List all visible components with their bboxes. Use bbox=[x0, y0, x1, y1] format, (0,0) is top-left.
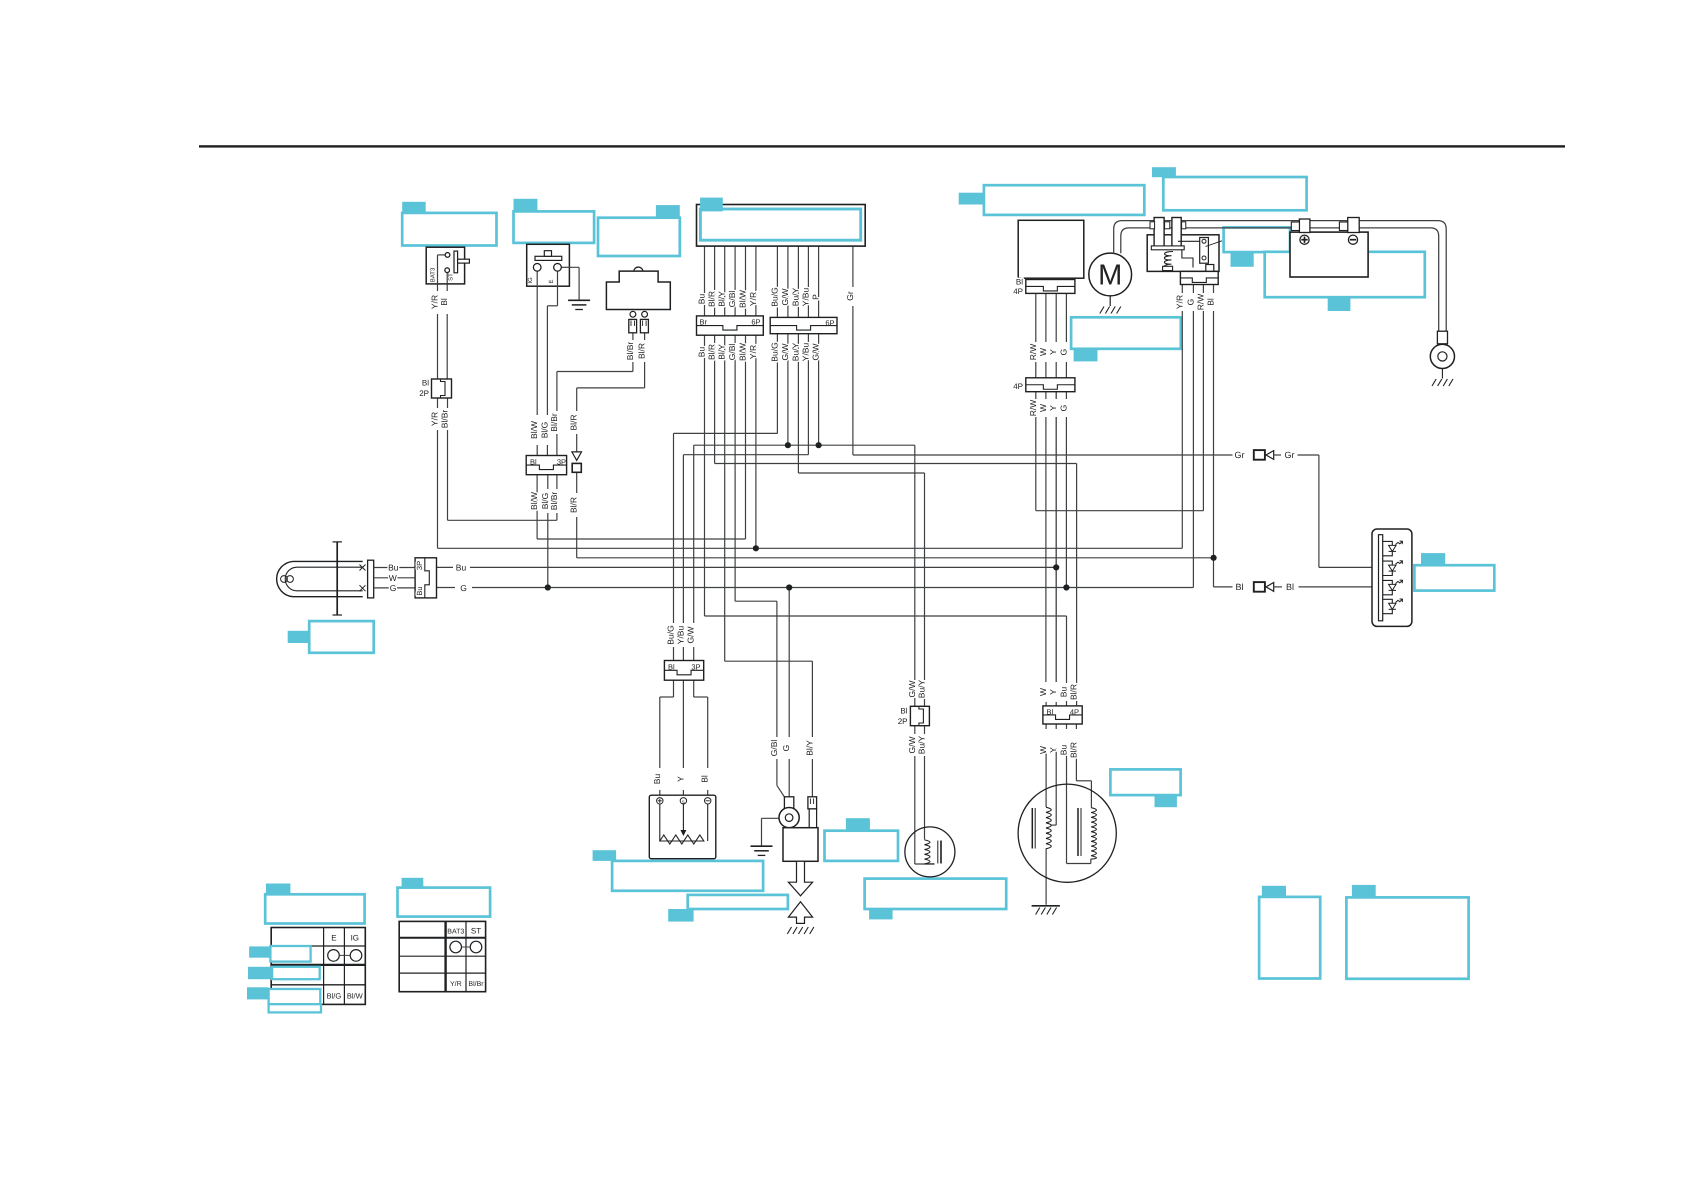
wire Y: regulator to alternator bbox=[1055, 293, 1057, 342]
svg-text:6P: 6P bbox=[825, 318, 834, 327]
label box: starter switch bbox=[402, 202, 426, 213]
ground: spark plug eyelet bbox=[762, 817, 779, 819]
exciter coil bbox=[905, 827, 955, 877]
svg-text:4P: 4P bbox=[1013, 382, 1023, 391]
svg-text:Y: Y bbox=[1048, 349, 1058, 355]
wire Bu: CDI to alternator bbox=[704, 335, 706, 616]
svg-text:Y/Bu: Y/Bu bbox=[800, 343, 810, 362]
svg-text:W: W bbox=[1038, 688, 1048, 696]
svg-text:Bl: Bl bbox=[1206, 298, 1216, 306]
fuse terminals bbox=[1154, 218, 1164, 247]
wire G: handlebar switch column bbox=[1192, 285, 1194, 294]
svg-text:Gr: Gr bbox=[845, 291, 855, 301]
svg-text:G: G bbox=[1058, 405, 1068, 412]
svg-text:Bu: Bu bbox=[415, 586, 424, 595]
label box: regulator unit bbox=[959, 193, 984, 205]
svg-text:W: W bbox=[389, 573, 397, 583]
svg-text:Bl: Bl bbox=[1286, 582, 1294, 592]
svg-text:2P: 2P bbox=[898, 717, 908, 726]
svg-text:Y: Y bbox=[675, 776, 685, 782]
label boxes: table 1 bbox=[266, 884, 291, 895]
indicator LED bbox=[1383, 561, 1393, 565]
wire Bu W G: headlight leads bbox=[374, 567, 415, 569]
svg-text:3P: 3P bbox=[557, 458, 566, 467]
wire Bl/Br: ignition coil lead bbox=[632, 333, 634, 340]
label box: indicator lamps bbox=[1421, 553, 1445, 565]
wire: engine stop switch internal bbox=[536, 271, 538, 287]
headlight bulb bbox=[277, 561, 363, 596]
svg-text:W: W bbox=[1038, 404, 1048, 412]
svg-text:Bl/G: Bl/G bbox=[327, 991, 342, 1000]
connector 6P Br: CDI bbox=[697, 316, 764, 335]
svg-text:Bu: Bu bbox=[1059, 745, 1069, 756]
svg-text:Bu: Bu bbox=[388, 563, 399, 573]
junction: Y/R bus bbox=[753, 545, 759, 551]
wire R/W bus: regulator to handlebar switch bbox=[1036, 510, 1204, 512]
connector 2P Bl: exciter bbox=[910, 706, 929, 725]
svg-text:Bl/R: Bl/R bbox=[707, 291, 717, 307]
wire W Y Bu Bl/R: 4P to alternator coils bbox=[1045, 724, 1047, 729]
svg-text:Bu: Bu bbox=[697, 347, 707, 358]
rectifier bbox=[649, 795, 716, 859]
junction: G bus / plug bbox=[786, 584, 792, 590]
rectifier arrow bbox=[682, 804, 684, 831]
wire Bl/W: engine stop switch IG bbox=[536, 271, 538, 415]
connector 4P: handlebar harness bbox=[1180, 271, 1218, 284]
svg-text:Bl/W: Bl/W bbox=[738, 343, 748, 361]
wire R/W: regulator column bbox=[1035, 293, 1037, 342]
continuity table: starter switch bbox=[399, 921, 485, 991]
svg-text:G/W: G/W bbox=[811, 344, 821, 361]
svg-text:Bl/R: Bl/R bbox=[707, 344, 717, 360]
svg-text:4P: 4P bbox=[1070, 708, 1079, 717]
svg-text:G: G bbox=[460, 583, 467, 593]
wire G/W Bu/Y: 2P to exciter coil bbox=[914, 726, 916, 734]
svg-text:Bu/G: Bu/G bbox=[769, 342, 779, 361]
connector 4P Bl: regulator bbox=[1026, 280, 1075, 294]
starter switch key bbox=[454, 251, 458, 273]
svg-text:6P: 6P bbox=[751, 318, 760, 327]
svg-text:W: W bbox=[1038, 348, 1048, 356]
svg-text:4P: 4P bbox=[1013, 287, 1023, 296]
wire G/Bl: CDI to spark plug eyelet bbox=[734, 335, 736, 601]
wire Bu bus: headlight to alternator Y bbox=[437, 566, 454, 568]
svg-text:Bl: Bl bbox=[422, 378, 429, 387]
svg-text:G/Bl: G/Bl bbox=[727, 344, 737, 361]
junction: G/W bus 1 bbox=[785, 442, 791, 448]
svg-text:Y/R: Y/R bbox=[430, 295, 440, 309]
svg-text:Bl/Br: Bl/Br bbox=[549, 413, 559, 432]
svg-text:Bu/Y: Bu/Y bbox=[790, 287, 800, 306]
rectifier resistor bbox=[659, 804, 661, 841]
label box: ignition coil bbox=[656, 205, 680, 218]
headlight terminals bbox=[360, 565, 366, 592]
svg-text:Bu/G: Bu/G bbox=[666, 625, 676, 644]
diode bullet connector bbox=[572, 452, 582, 461]
junction: G bus / Bl-G bbox=[545, 584, 551, 590]
svg-text:Y/R: Y/R bbox=[748, 292, 758, 306]
spark plug arrow down bbox=[788, 861, 812, 896]
svg-text:Y/R: Y/R bbox=[430, 412, 440, 426]
svg-text:Bl/Br: Bl/Br bbox=[468, 980, 484, 988]
wire Gr: CDI to indicator lamp bbox=[852, 246, 854, 287]
svg-text:2P: 2P bbox=[419, 389, 429, 398]
svg-text:Bu: Bu bbox=[1059, 687, 1069, 698]
label box: rectifier bbox=[593, 850, 617, 861]
wire G: G bus to spark plug eyelet bbox=[788, 588, 790, 738]
junction: G bus / regulator G bbox=[1063, 584, 1069, 590]
battery negative terminal bbox=[1348, 235, 1357, 244]
ground: spark gap bbox=[787, 927, 814, 934]
svg-text:Bl: Bl bbox=[439, 298, 449, 306]
svg-text:Bl/G: Bl/G bbox=[539, 422, 549, 439]
junction: Bl / Bl-R bbox=[1211, 555, 1217, 561]
headlight terminal plate bbox=[368, 560, 374, 598]
wire: engine stop switch to ground bbox=[561, 266, 579, 268]
relay coil bbox=[1164, 252, 1173, 269]
svg-text:IG: IG bbox=[527, 277, 534, 284]
ignition coil bbox=[634, 267, 643, 271]
spark plug cap bbox=[808, 797, 817, 809]
ground eyelet bbox=[1437, 331, 1447, 344]
svg-text:Y/R: Y/R bbox=[1174, 295, 1184, 309]
ground: battery earth bbox=[1441, 369, 1443, 379]
page header rule bbox=[199, 145, 1565, 147]
svg-text:G/W: G/W bbox=[907, 737, 917, 754]
wire Bl/Y: CDI to spark plug cap bbox=[724, 335, 726, 661]
svg-text:G: G bbox=[1058, 349, 1068, 356]
svg-text:G/W: G/W bbox=[686, 627, 696, 644]
svg-text:Bl/Br: Bl/Br bbox=[625, 342, 635, 361]
spark plug arrow up bbox=[788, 902, 812, 924]
indicator LED bbox=[1383, 580, 1393, 584]
alternator charge coil bbox=[1046, 807, 1051, 849]
svg-text:Bl/Y: Bl/Y bbox=[717, 291, 727, 307]
wire G: regulator to G bus bbox=[1065, 293, 1067, 342]
svg-text:Bu: Bu bbox=[456, 563, 467, 573]
svg-text:Bl/R: Bl/R bbox=[1068, 742, 1078, 758]
svg-text:Y/Bu: Y/Bu bbox=[800, 288, 810, 307]
starter motor bbox=[1089, 253, 1132, 296]
svg-text:E: E bbox=[548, 279, 555, 283]
starter magnetic switch bbox=[1147, 235, 1219, 272]
svg-text:Bl/Br: Bl/Br bbox=[549, 492, 559, 511]
svg-text:Bu: Bu bbox=[652, 774, 662, 785]
svg-text:W: W bbox=[1038, 746, 1048, 754]
wire Bl/W: engine stop to CDI bbox=[745, 335, 747, 539]
svg-text:G: G bbox=[781, 745, 791, 752]
wire Bl/Br: horn to starter 2P bbox=[448, 519, 557, 521]
rectifier terminals bbox=[657, 798, 663, 804]
svg-text:Y/R: Y/R bbox=[748, 345, 758, 359]
svg-text:3P: 3P bbox=[691, 663, 700, 672]
label box: table 2 bbox=[402, 878, 424, 888]
svg-text:Bl: Bl bbox=[700, 775, 710, 783]
svg-text:Bl/R: Bl/R bbox=[1068, 684, 1078, 700]
wire Bu/G Y/Bu G/W: 3P to rectifier bbox=[673, 680, 675, 697]
svg-text:Bl/W: Bl/W bbox=[529, 492, 539, 510]
CDI unit bbox=[697, 205, 866, 247]
wire Bu/Y: CDI to exciter 2P bbox=[797, 334, 799, 473]
label box: top right bbox=[1152, 167, 1176, 177]
spark plug eyelet bbox=[784, 797, 793, 809]
label box: exciter coil bbox=[1110, 769, 1180, 795]
label box: headlight bbox=[288, 631, 310, 643]
wire W: regulator to alternator bbox=[1045, 293, 1047, 342]
svg-text:Gr: Gr bbox=[1285, 450, 1295, 460]
label box: spark plug bbox=[846, 818, 870, 831]
svg-text:Br: Br bbox=[700, 318, 708, 327]
regulator unit bbox=[1018, 220, 1084, 278]
svg-text:Bl/W: Bl/W bbox=[529, 421, 539, 439]
svg-text:ST: ST bbox=[471, 926, 481, 935]
svg-text:Bl: Bl bbox=[668, 663, 675, 672]
wire Bl/R: diode to Bl junction bbox=[576, 388, 578, 411]
svg-text:Bl: Bl bbox=[1047, 708, 1054, 717]
spark plug body bbox=[783, 828, 818, 862]
svg-text:G/W: G/W bbox=[780, 344, 790, 361]
svg-text:Gr: Gr bbox=[1235, 450, 1245, 460]
svg-text:Bu: Bu bbox=[697, 294, 707, 305]
svg-text:M: M bbox=[1098, 260, 1122, 292]
wire: starter switch internal bbox=[438, 254, 446, 256]
connector 4P: regulator lower bbox=[1026, 378, 1075, 392]
wire Bl/R: ignition coil lead bbox=[644, 333, 646, 340]
connector 6P: CDI second bbox=[770, 317, 837, 333]
svg-text:G/W: G/W bbox=[780, 289, 790, 306]
svg-text:R/W: R/W bbox=[1028, 344, 1038, 361]
ground: engine stop switch bbox=[568, 300, 590, 309]
battery bbox=[1290, 232, 1368, 277]
connector 3P Bu: headlight bbox=[415, 558, 436, 598]
battery positive terminal bbox=[1300, 235, 1309, 244]
wire Y/Bu: CDI to 3P connector bbox=[807, 334, 809, 455]
ground: alternator bbox=[1032, 905, 1060, 907]
svg-text:G/Bl: G/Bl bbox=[727, 291, 737, 308]
svg-text:Bl/R: Bl/R bbox=[569, 414, 579, 430]
svg-text:Y/Bu: Y/Bu bbox=[675, 626, 685, 645]
connector 3P Bl: ignition primary bbox=[526, 456, 566, 475]
svg-text:ST: ST bbox=[447, 273, 454, 281]
label box: bottom right small bbox=[1262, 886, 1286, 897]
svg-text:E: E bbox=[331, 933, 336, 942]
wires: CDI unit to 6P connectors bbox=[704, 246, 706, 316]
svg-text:Bu/Y: Bu/Y bbox=[790, 342, 800, 361]
svg-text:R/W: R/W bbox=[1195, 294, 1205, 311]
svg-text:P: P bbox=[811, 294, 821, 300]
label box: starter magnetic switch bbox=[1071, 317, 1181, 349]
indicator LED bbox=[1383, 541, 1393, 545]
svg-text:BAT3: BAT3 bbox=[430, 267, 437, 282]
svg-text:Bl/W: Bl/W bbox=[347, 991, 364, 1000]
battery posts bbox=[1299, 219, 1310, 233]
svg-text:G: G bbox=[1185, 299, 1195, 306]
svg-text:G/W: G/W bbox=[907, 681, 917, 698]
label box: engine stop switch bbox=[514, 199, 538, 212]
svg-text:Bu/Y: Bu/Y bbox=[917, 679, 927, 698]
indicator lamp cluster bbox=[1372, 529, 1412, 626]
indicator LED bbox=[1383, 599, 1393, 603]
svg-text:R/W: R/W bbox=[1028, 400, 1038, 417]
svg-text:Bl/Y: Bl/Y bbox=[804, 740, 814, 756]
alternator bbox=[1018, 784, 1116, 882]
wire Y/R: starter switch bbox=[438, 254, 446, 256]
svg-text:Bl/Br: Bl/Br bbox=[440, 410, 450, 429]
relay contact bbox=[1200, 238, 1209, 264]
label box: fuse bbox=[1224, 227, 1290, 252]
headlight mounting bar bbox=[336, 542, 338, 615]
svg-text:3P: 3P bbox=[415, 561, 424, 570]
svg-text:Y/R: Y/R bbox=[450, 980, 462, 988]
ignition coil plug caps bbox=[630, 311, 636, 317]
svg-text:Bl/R: Bl/R bbox=[637, 343, 647, 359]
connector 3P Bl: rectifier bbox=[664, 661, 703, 681]
battery cable positive bbox=[1114, 221, 1447, 332]
svg-text:Y: Y bbox=[1048, 747, 1058, 753]
junction: Bu bus / Y bbox=[1053, 564, 1059, 570]
svg-text:Bl/W: Bl/W bbox=[738, 290, 748, 308]
junction: G/W bus 2 bbox=[816, 442, 822, 448]
svg-text:Y: Y bbox=[1048, 689, 1058, 695]
starter switch bbox=[426, 247, 464, 284]
wire G bus: headlight ground bus bbox=[437, 587, 456, 589]
wire Bl: starter switch bbox=[446, 272, 448, 291]
headlight filament bbox=[281, 576, 288, 583]
svg-text:Bu/Y: Bu/Y bbox=[917, 735, 927, 754]
wire Bl: handlebar switch to indicator bbox=[1213, 285, 1215, 294]
connector 4P Bl: alternator bbox=[1043, 706, 1082, 724]
svg-text:Y: Y bbox=[1048, 405, 1058, 411]
ground: starter motor bbox=[1109, 296, 1111, 306]
label box: bottom right large bbox=[1352, 885, 1376, 898]
wire G/W: CDI to exciter 2P bbox=[787, 334, 789, 446]
continuity table: engine stop switch bbox=[271, 928, 365, 1005]
label box: rectifier sub bbox=[688, 895, 788, 909]
connector 2P Bl: starter switch bbox=[432, 379, 452, 398]
svg-text:Bl: Bl bbox=[1235, 582, 1243, 592]
svg-text:BAT3: BAT3 bbox=[447, 928, 464, 935]
wire Bl/G: engine stop switch E bbox=[557, 271, 559, 306]
svg-text:Bl/R: Bl/R bbox=[569, 497, 579, 513]
wire Y/R: CDI to Y/R bus bbox=[755, 335, 757, 548]
svg-text:Bl/Y: Bl/Y bbox=[717, 344, 727, 360]
svg-text:IG: IG bbox=[351, 933, 359, 942]
svg-text:Bl: Bl bbox=[1016, 277, 1023, 286]
svg-text:G: G bbox=[390, 583, 397, 593]
label box: alternator bbox=[865, 879, 1007, 909]
alternator pulse coil bbox=[1091, 808, 1096, 859]
svg-text:Bu/G: Bu/G bbox=[769, 287, 779, 306]
battery cable negative bbox=[1121, 228, 1439, 332]
svg-text:Bl: Bl bbox=[530, 458, 537, 467]
wire Y/R bus: starter switch to handlebar switch bbox=[438, 547, 1183, 549]
svg-text:Bl: Bl bbox=[900, 707, 907, 716]
wire Bu/G: CDI to 3P connector bbox=[776, 334, 778, 434]
svg-text:G/Bl: G/Bl bbox=[769, 740, 779, 757]
label box: battery bbox=[1265, 252, 1425, 297]
wire Bl/R: CDI to alternator pulse bbox=[714, 335, 716, 463]
engine stop switch bbox=[527, 244, 570, 286]
